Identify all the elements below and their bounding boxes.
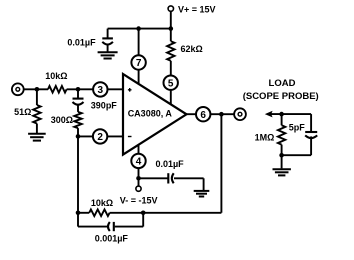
wire load ground stub: [281, 155, 283, 168]
wire pin 4 to V- node: [138, 145, 140, 186]
ground (V- decoupling cap): [194, 190, 210, 192]
resistor 10k ohm (top input): [48, 86, 67, 93]
wire feedback cap right lead: [115, 226, 144, 228]
junction V+ rail / pin 7: [136, 26, 141, 31]
capacitor 0.01uF (V- decoupling): [167, 173, 169, 183]
wire inverting node drop to feedback: [77, 136, 79, 212]
svg-text:0.01µF: 0.01µF: [67, 37, 96, 47]
wire V- node to 0.01uF: [139, 177, 168, 179]
wire node B down to 390pF: [77, 89, 79, 98]
output terminal: [234, 108, 246, 120]
svg-text:7: 7: [136, 58, 142, 69]
junction feedback left corner: [76, 211, 81, 216]
junction output node / feedback: [219, 112, 224, 117]
wire V- ground stub: [203, 178, 205, 190]
op-amp minus input sign: [128, 136, 132, 138]
svg-text:390pF: 390pF: [91, 101, 118, 111]
capacitor 5pF: [305, 131, 317, 133]
svg-text:4: 4: [136, 157, 142, 168]
wire 51 ohm to ground: [36, 124, 38, 135]
svg-text:10kΩ: 10kΩ: [91, 198, 113, 208]
pin 2 circle: [93, 129, 107, 143]
svg-text:10kΩ: 10kΩ: [45, 71, 67, 81]
wire 300 ohm to inverting node: [77, 128, 79, 136]
resistor 62k ohm: [167, 41, 174, 61]
resistor 300 ohm: [74, 112, 81, 128]
wire load right top lead to 5pF: [310, 114, 312, 132]
wire load top rail: [269, 113, 312, 115]
wire feedback cap left drop: [77, 213, 79, 227]
wire 62k bottom to pin 5 into op-amp: [170, 61, 172, 105]
junction inverting node (pin 2 / feedback): [76, 134, 81, 139]
pin 7 circle: [131, 55, 145, 69]
wire feedback left to 10k: [78, 212, 89, 214]
wire output node drop (feedback right vertical): [220, 114, 222, 213]
wire op-amp output to terminal: [187, 113, 235, 115]
wire 0.01uF to ground corner: [174, 177, 204, 179]
resistor 10k ohm (feedback): [89, 210, 109, 217]
svg-text:5: 5: [168, 78, 174, 89]
wire pin 7 drop from V+ rail: [138, 29, 140, 85]
wire feedback 10k to output drop: [110, 212, 222, 214]
pin 5 circle: [164, 76, 178, 90]
svg-text:300Ω: 300Ω: [51, 115, 73, 125]
capacitor 0.001uF (feedback): [113, 222, 115, 231]
input terminal: [12, 83, 24, 95]
junction feedback right (10k / 0.001uF): [141, 211, 146, 216]
junction node B (pin 3 / 390pF): [76, 87, 81, 92]
svg-text:51Ω: 51Ω: [14, 107, 31, 117]
wire pin 2 inverting input line: [78, 135, 123, 137]
svg-text:3: 3: [98, 85, 104, 96]
svg-text:V- = -15V: V- = -15V: [120, 196, 158, 206]
junction load bottom (1M / 5pF / ground): [279, 153, 284, 158]
svg-text:LOAD: LOAD: [269, 78, 296, 89]
ground (51 ohm): [28, 133, 46, 135]
svg-text:V+ = 15V: V+ = 15V: [178, 4, 216, 14]
wire feedback cap right drop: [142, 213, 144, 227]
ground (load): [273, 168, 291, 170]
wire V+ rail horizontal: [108, 28, 171, 30]
svg-text:CA3080, A: CA3080, A: [128, 109, 173, 119]
ground (V+ decoupling cap): [98, 51, 118, 53]
wire 5pF bottom lead: [310, 136, 312, 155]
svg-text:1MΩ: 1MΩ: [255, 133, 275, 143]
junction V+ terminal / 62k: [169, 26, 174, 31]
V+ terminal: [168, 6, 173, 11]
wire feedback cap left lead: [78, 226, 108, 228]
op-amp plus input sign: [128, 88, 132, 92]
svg-text:0.01µF: 0.01µF: [155, 159, 184, 169]
svg-text:6: 6: [200, 110, 206, 121]
pin 4 circle: [131, 154, 145, 168]
pin 6 circle: [196, 107, 210, 121]
V- terminal: [136, 186, 141, 191]
svg-text:62kΩ: 62kΩ: [181, 44, 203, 54]
wire V+ terminal stub: [170, 11, 172, 28]
junction node A (input / 51 ohm): [35, 87, 40, 92]
resistor 1M ohm (load): [278, 125, 285, 144]
pin 3 circle: [93, 82, 107, 96]
wire 1M top lead: [281, 114, 283, 125]
op-amp U1 CA3080 triangle: [123, 74, 187, 155]
svg-text:5pF: 5pF: [289, 122, 306, 132]
wire 1M bottom lead: [281, 145, 283, 156]
capacitor 390pF: [73, 98, 84, 100]
svg-text:0.001µF: 0.001µF: [95, 233, 129, 243]
wire load bottom rail: [282, 154, 312, 156]
wire 390pF to 300 ohm: [77, 105, 79, 112]
wire input terminal to 10k: [24, 88, 48, 90]
load probe arrow: [265, 111, 273, 118]
junction V- node (pin 4 / 0.01uF): [136, 176, 141, 181]
wire 10k to pin 3 noninverting input: [67, 88, 123, 90]
wire V+ rail to 62k top lead: [170, 29, 172, 42]
svg-text:(SCOPE PROBE): (SCOPE PROBE): [243, 91, 319, 102]
wire node A down to 51 ohm: [36, 89, 38, 105]
capacitor 0.01uF (V+ decoupling): [107, 29, 109, 39]
svg-text:2: 2: [97, 132, 103, 143]
resistor 51 ohm: [33, 105, 40, 124]
junction load top (arrow / 1M / 5pF): [279, 112, 284, 117]
